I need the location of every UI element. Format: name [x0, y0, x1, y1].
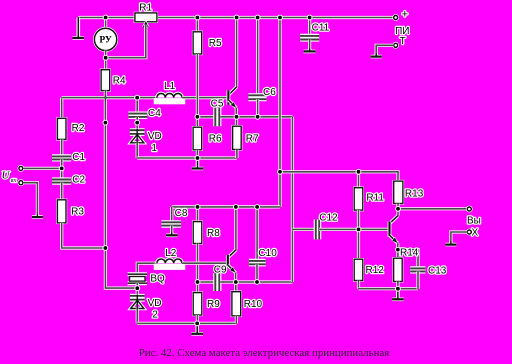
wire C2 to R3	[60, 183, 63, 200]
node R4/C4 junction left	[103, 120, 108, 125]
node C6 bottom	[255, 114, 260, 119]
wire top rail down to amp rail	[278, 18, 281, 207]
capacitor C1	[52, 156, 71, 159]
wire mixing tee to C12	[292, 228, 314, 231]
node top rail Q1 collector tap	[234, 15, 239, 20]
wire emitter node 2 to R10	[234, 282, 237, 292]
svg-text:2: 2	[152, 309, 158, 320]
wire R10 to bottom rail	[235, 316, 238, 324]
svg-text:C6: C6	[263, 87, 276, 98]
svg-text:C11: C11	[312, 23, 330, 34]
svg-text:U: U	[2, 170, 11, 182]
wire R1 wiper to node under RU	[106, 25, 146, 58]
wire left rail corner down to R2	[60, 98, 63, 119]
wire R9 to bottom rail	[196, 315, 199, 323]
node R3 joins tuning line	[103, 246, 108, 251]
wire C11 to ground	[308, 40, 311, 51]
node R8 top	[195, 205, 200, 210]
wire VD1 to bottom rail	[136, 143, 139, 158]
node top rail C11 tap	[307, 15, 312, 20]
svg-text:C8: C8	[175, 208, 188, 219]
node top rail C6 tap	[255, 15, 260, 20]
svg-text:R5: R5	[209, 38, 222, 49]
svg-text:R12: R12	[366, 265, 385, 276]
wire base rail oscillator 1	[62, 96, 157, 99]
varicap diode VD1	[130, 129, 145, 143]
svg-text:РУ: РУ	[99, 36, 112, 46]
svg-text:R14: R14	[400, 248, 419, 259]
wire BQ bottom lead	[136, 283, 139, 288]
wire C12 to Q3 base	[319, 228, 388, 231]
wire input node to C2	[60, 168, 63, 178]
svg-text:Вы: Вы	[467, 215, 481, 226]
resistor R3	[56, 199, 67, 225]
svg-text:R11: R11	[366, 193, 384, 204]
terminal supply plus	[392, 14, 399, 21]
svg-text:C2: C2	[72, 175, 85, 186]
node amp supply tap	[278, 169, 283, 174]
svg-text:R2: R2	[72, 123, 85, 134]
wire emitter rail 2 to mixing line	[257, 280, 292, 283]
Q2 emitter diagonal	[228, 265, 236, 273]
wire rail to C10	[256, 207, 259, 260]
capacitor C4	[128, 114, 147, 117]
node C4/VD1 junction	[135, 120, 140, 125]
wire rail to Q2 collector	[234, 207, 237, 250]
svg-text:L2: L2	[165, 248, 177, 259]
wire oscillator 1 bottom rail	[137, 156, 237, 159]
wire C10 to emitter rail 2	[255, 264, 258, 282]
svg-text:Х: Х	[471, 228, 478, 239]
node emitter osc1	[234, 114, 239, 119]
svg-text:VD: VD	[148, 298, 162, 309]
wire R4 down across rail to C4 node wire	[104, 91, 107, 123]
capacitor C12	[316, 219, 319, 239]
wire BQ to L2 corner	[137, 263, 157, 274]
node ground osc1	[195, 156, 200, 161]
svg-text:C9: C9	[214, 265, 227, 276]
wire output to terminal	[398, 207, 467, 210]
node collector output	[396, 206, 401, 211]
node B divider osc2	[195, 280, 200, 285]
wire Q1 emitter down	[235, 108, 238, 117]
wire collector node down	[396, 209, 399, 216]
svg-text:C13: C13	[428, 266, 447, 277]
wire R8 to node B	[196, 244, 199, 283]
capacitor C9	[215, 273, 219, 291]
wire node B to R9	[196, 282, 199, 293]
wire C1 to input node	[60, 159, 63, 168]
wire VD1 top lead	[136, 123, 139, 135]
varicap diode VD2	[130, 294, 145, 308]
svg-text:R3: R3	[71, 207, 84, 218]
svg-text:R10: R10	[244, 299, 263, 310]
wire R2 to C1	[60, 139, 63, 155]
wire node to R4	[104, 58, 107, 70]
node top rail RU tap	[103, 15, 108, 20]
wire amp bottom rail	[359, 287, 419, 290]
wire rail corner to C8	[170, 207, 173, 222]
wire C9 to emitter node 2	[220, 280, 235, 283]
wire top rail right of R1	[157, 16, 394, 19]
svg-text:R8: R8	[207, 228, 220, 239]
wire Q3 emitter down	[396, 243, 399, 249]
resistor R2	[56, 117, 67, 141]
capacitor C5	[215, 107, 219, 126]
wire Q2 emitter down	[234, 273, 237, 282]
node R11/R12 base junction	[356, 227, 361, 232]
wire emitter node to C13 top	[398, 250, 418, 268]
Q2 emitter arrowhead	[230, 267, 235, 272]
svg-text:R6: R6	[209, 134, 222, 145]
svg-text:R9: R9	[207, 299, 220, 310]
svg-text:R13: R13	[405, 189, 424, 200]
svg-text:L1: L1	[164, 81, 176, 92]
resistor R1	[134, 12, 158, 23]
capacitor C11	[300, 36, 319, 40]
wire input ground terminal lead	[23, 183, 37, 217]
wire R12 to amp bottom rail	[357, 281, 360, 289]
svg-text:C5: C5	[211, 98, 224, 109]
wire top rail to R5	[196, 18, 199, 32]
capacitor C10	[249, 261, 266, 264]
wire input terminal to node	[23, 167, 62, 170]
node C4 top junction	[135, 95, 140, 100]
svg-text:C4: C4	[148, 108, 161, 119]
wire tuning line down to BQ node	[105, 123, 137, 289]
wire top rail left of R1	[78, 16, 135, 19]
resistor R5	[192, 31, 203, 56]
svg-text:C1: C1	[72, 152, 85, 163]
ground output terminal	[446, 242, 457, 245]
wire oscillator 2 top rail	[172, 205, 280, 208]
Q3 collector diagonal	[390, 216, 399, 224]
wiper arrow of R1	[143, 23, 148, 28]
ground oscillator 2	[191, 323, 203, 333]
wire RU bottom to node	[104, 51, 107, 58]
Q2 base bar	[226, 255, 230, 267]
wire C5 to emitter node	[220, 115, 236, 118]
wire amp supply rail	[280, 172, 398, 181]
wire L1 to Q1 base	[182, 96, 227, 99]
svg-text:C12: C12	[319, 213, 338, 224]
Q1 emitter diagonal	[228, 100, 236, 108]
resistor R13	[393, 180, 405, 205]
svg-text:R4: R4	[113, 76, 126, 87]
svg-text:VD: VD	[148, 131, 162, 142]
svg-text:+: +	[402, 8, 408, 20]
wire C4 top lead	[136, 98, 139, 113]
svg-text:1: 1	[151, 143, 157, 154]
wire emitter node 2 to C10 node	[236, 280, 257, 283]
wire emitter node to C6 node	[237, 115, 258, 118]
capacitor C8	[161, 222, 181, 225]
node emitter osc2	[233, 280, 238, 285]
Q3 base bar	[388, 222, 392, 237]
regulator RU circle U0	[93, 27, 118, 52]
wire R13 to collector node	[396, 204, 399, 209]
wire emitter rail to mixing line	[258, 115, 293, 118]
ground top-left	[73, 18, 85, 38]
wire emitter node to R7	[235, 117, 238, 126]
wire VD2 top lead	[136, 288, 139, 300]
resistor R9	[192, 291, 203, 316]
crystal resonator BQ	[128, 274, 147, 283]
Q3 emitter diagonal	[390, 235, 398, 243]
node emitter output	[396, 247, 401, 252]
node R11 top	[356, 169, 361, 174]
svg-text:C10: C10	[258, 248, 277, 259]
inductor L1	[154, 93, 186, 104]
resistor R10	[231, 291, 242, 318]
wire R7 to bottom rail	[235, 150, 238, 159]
terminal input ground	[18, 179, 25, 186]
wire rail to R11	[357, 172, 360, 188]
wire crossing repair R4	[104, 95, 106, 101]
wire T terminal to ground	[376, 45, 393, 55]
wire node B to C9	[198, 280, 215, 283]
wire emitter node to R14	[396, 250, 399, 259]
terminal supply T	[392, 42, 399, 49]
inductor L2	[154, 259, 186, 270]
terminal output ground	[466, 229, 473, 236]
ground amplifier	[392, 289, 404, 300]
resistor R12	[353, 258, 364, 282]
Q1 base bar	[226, 90, 230, 104]
wire R11 to base node	[357, 210, 360, 229]
wire R14 to amp bottom rail	[396, 282, 399, 289]
capacitor C13	[410, 268, 425, 271]
ground C8	[166, 232, 178, 235]
svg-text:BQ: BQ	[150, 274, 165, 285]
resistor R11	[353, 187, 364, 212]
ground supply	[371, 53, 382, 56]
node C10 top	[255, 205, 260, 210]
Q3 emitter arrowhead	[392, 238, 397, 243]
wire L2 to Q2 base	[182, 262, 227, 265]
resistor R6	[192, 126, 203, 151]
Q1 collector diagonal	[228, 87, 237, 96]
node top rail amp feed tap	[278, 15, 283, 20]
capacitor C2	[52, 180, 71, 183]
ground oscillator 1	[192, 158, 204, 169]
wire C8 to ground	[170, 226, 173, 235]
terminal input hot	[18, 165, 25, 172]
wire top rail to C6	[256, 18, 259, 95]
wire rail to R8	[196, 207, 199, 222]
resistor R7	[231, 125, 242, 151]
ground C11	[304, 49, 316, 52]
wire C6 to emitter rail	[256, 99, 259, 117]
node under RU	[103, 55, 108, 60]
wire C4 bottom lead	[136, 117, 139, 123]
resistor R8	[192, 220, 203, 244]
node ground osc2	[195, 321, 200, 326]
wire mixing vertical line	[291, 117, 294, 282]
Q1 emitter arrowhead	[231, 102, 236, 107]
wire VD2 to bottom rail	[136, 309, 139, 324]
capacitor C6	[248, 95, 266, 99]
node C10 bottom	[255, 280, 260, 285]
svg-text:Рис. 42. Схема макета электрич: Рис. 42. Схема макета электрическая прин…	[139, 347, 390, 359]
terminal output hot	[466, 206, 473, 213]
node A divider osc1	[195, 114, 200, 119]
resistor R14	[392, 257, 403, 283]
Q2 collector diagonal	[228, 250, 236, 258]
svg-text:R7: R7	[246, 134, 259, 145]
wire top rail to Q1 collector	[235, 18, 238, 87]
wire top rail to C11	[308, 18, 311, 36]
node BQ/VD2 junction	[135, 286, 140, 291]
wire R6 to bottom rail	[196, 150, 199, 158]
node top rail R5 tap	[195, 15, 200, 20]
wire R3 bottom to tuning line	[62, 223, 106, 248]
wire C13 bottom to rail	[416, 271, 419, 288]
svg-text:Т: Т	[400, 36, 406, 47]
wire R5 to node A	[196, 54, 199, 117]
wire output ground lead	[451, 232, 467, 244]
wire node A to C5	[197, 115, 214, 118]
wire node A to R6	[196, 117, 199, 127]
node input junction	[59, 166, 64, 171]
ground input	[32, 214, 43, 217]
node amp ground	[396, 286, 401, 291]
node Q2 collector top	[234, 205, 239, 210]
svg-text:R1: R1	[139, 2, 152, 13]
resistor R4	[100, 69, 111, 92]
svg-text:вх: вх	[11, 177, 17, 184]
wire base node to R12	[357, 229, 360, 259]
wire top rail to RU	[104, 18, 107, 29]
wire oscillator 2 bottom rail	[137, 322, 236, 325]
